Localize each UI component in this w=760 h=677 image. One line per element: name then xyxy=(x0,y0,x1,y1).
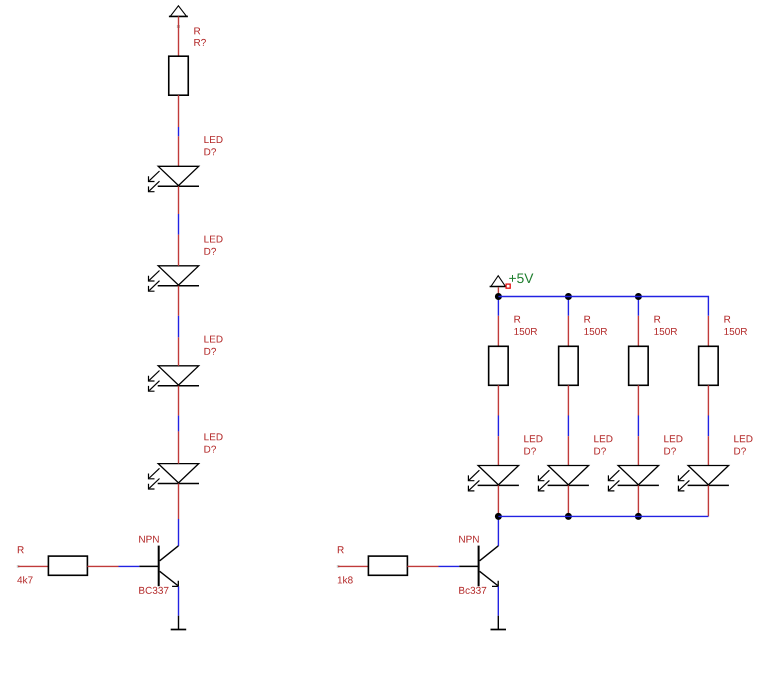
junction (top bus / R3) xyxy=(635,293,642,300)
wire (150R bottom pin) xyxy=(497,385,499,415)
label +5V xyxy=(509,274,533,284)
pin end marker xyxy=(17,565,20,568)
wire (net 1k8-Q2 base) xyxy=(439,565,460,567)
resistor 150R #2 xyxy=(559,346,579,385)
wire (net R-LED #4) xyxy=(707,416,709,437)
wire (bus to Q2 collector) xyxy=(497,516,499,546)
wire (LED anode pin) xyxy=(707,436,709,465)
pin square marker (+5V pin) xyxy=(506,284,510,288)
label LED D? (left #4) xyxy=(204,433,222,452)
ground (left) xyxy=(171,616,187,630)
wire (bus drop #2) xyxy=(567,297,569,316)
label LED D? (right #2) xyxy=(594,435,612,454)
wire (LED anode pin) xyxy=(637,436,639,465)
wire (LED cathode pin) xyxy=(497,485,499,516)
junction (bottom bus / D3) xyxy=(635,513,642,520)
wire (cathode pin) xyxy=(178,386,180,416)
label BC337 (Q1 value) xyxy=(139,587,168,594)
transistor Q1 BC337 (left) xyxy=(139,546,178,587)
wire (150R top pin) xyxy=(497,316,499,347)
ground (right) xyxy=(491,616,507,630)
wire (anode pin) xyxy=(178,337,180,366)
wire (LED anode pin) xyxy=(497,436,499,465)
wire (cathode pin) xyxy=(178,484,180,520)
wire (net D3-D4) xyxy=(178,416,180,432)
LED D?3 (left chain) xyxy=(149,366,200,391)
wire (net D4-Q1) xyxy=(178,519,180,546)
wire (net D1-D2) xyxy=(178,214,180,235)
wire (1k8 right pin) xyxy=(407,565,438,567)
wire (cathode pin) xyxy=(178,186,180,214)
wire (150R top pin) xyxy=(567,316,569,347)
label R 150R (#3) xyxy=(654,316,677,335)
wire (150R bottom pin) xyxy=(707,385,709,415)
wire (1k8 left pin) xyxy=(338,565,368,567)
wire (150R top pin) xyxy=(637,316,639,347)
power supply symbol +5V xyxy=(490,276,507,287)
resistor R? (left series) xyxy=(169,56,189,95)
wire (LED anode pin) xyxy=(567,436,569,465)
wire (net R-LED #1) xyxy=(497,416,499,437)
LED D?3 (right bank) xyxy=(608,466,659,491)
resistor 1k8 body xyxy=(368,556,407,575)
label R R? (series resistor) xyxy=(194,28,206,46)
resistor 150R #3 xyxy=(629,346,649,385)
label Bc337 (Q2 value) xyxy=(459,587,486,594)
LED D?2 (right bank) xyxy=(538,466,589,491)
wire (left rail pin to R?) xyxy=(178,16,180,56)
wire (Q2 emitter to ground) xyxy=(497,586,499,615)
wire (LED cathode pin) xyxy=(567,485,569,516)
transistor Q2 Bc337 (right) xyxy=(459,546,498,587)
pin junction marker xyxy=(177,25,180,28)
resistor 150R #4 xyxy=(699,346,719,385)
label LED D? (right #4) xyxy=(734,435,752,454)
wire (150R bottom pin) xyxy=(637,385,639,415)
wire (Q1 emitter to ground) xyxy=(178,586,180,615)
wire (LED D?1 anode pin) xyxy=(178,136,180,166)
wire (bus drop #1) xyxy=(497,297,499,316)
wire (LED cathode pin) xyxy=(707,485,709,516)
wire (top +5V bus) xyxy=(498,297,708,316)
wire (LED cathode pin) xyxy=(637,485,639,516)
wire (net R-LED #2) xyxy=(567,416,569,437)
label NPN (Q2) xyxy=(459,536,479,543)
label LED D? (left #3) xyxy=(204,336,222,355)
wire (net R?-D1) xyxy=(178,127,180,136)
wire (4k7 left pin) xyxy=(18,565,48,567)
label LED D? (left #1) xyxy=(204,136,222,155)
wire (150R bottom pin) xyxy=(567,385,569,415)
label R 150R (#1) xyxy=(514,316,537,335)
wire (bottom collector bus) xyxy=(498,515,708,517)
label R 150R (#2) xyxy=(584,316,607,335)
wire (anode pin) xyxy=(178,235,180,266)
label NPN (Q1) xyxy=(139,536,159,543)
wire (+5V pin) xyxy=(497,287,499,293)
label LED D? (right #1) xyxy=(524,435,542,454)
label LED D? (left #2) xyxy=(204,236,222,255)
resistor 4k7 body xyxy=(48,556,87,575)
junction (bottom bus / Q2 collector) xyxy=(495,513,502,520)
junction (bottom bus / D2) xyxy=(565,513,572,520)
label R 1k8 (base resistor) xyxy=(338,546,353,583)
wire (anode pin) xyxy=(178,431,180,463)
LED D?1 (left chain) xyxy=(149,166,200,191)
wire (cathode pin) xyxy=(178,286,180,316)
LED D?2 (left chain) xyxy=(149,266,200,291)
wire (R? lower pin) xyxy=(178,95,180,127)
wire (4k7 right pin) xyxy=(87,565,118,567)
wire (net 4k7-Q1 base) xyxy=(119,565,140,567)
label R 150R (#4) xyxy=(724,316,747,335)
wire (150R top pin) xyxy=(707,316,709,347)
power supply symbol (left +V rail) xyxy=(169,6,188,17)
pin end marker xyxy=(337,565,340,568)
LED D?1 (right bank) xyxy=(468,466,519,491)
junction (top bus / +5V) xyxy=(495,293,502,300)
resistor 150R #1 xyxy=(489,346,509,385)
junction (top bus / R2) xyxy=(565,293,572,300)
label LED D? (right #3) xyxy=(664,435,682,454)
wire (net D2-D3) xyxy=(178,316,180,338)
wire (bus drop #3) xyxy=(637,297,639,316)
LED D?4 (left chain) xyxy=(149,464,200,489)
label R 4k7 (base resistor) xyxy=(17,546,32,583)
wire (net R-LED #3) xyxy=(637,416,639,437)
LED D?4 (right bank) xyxy=(678,466,729,491)
